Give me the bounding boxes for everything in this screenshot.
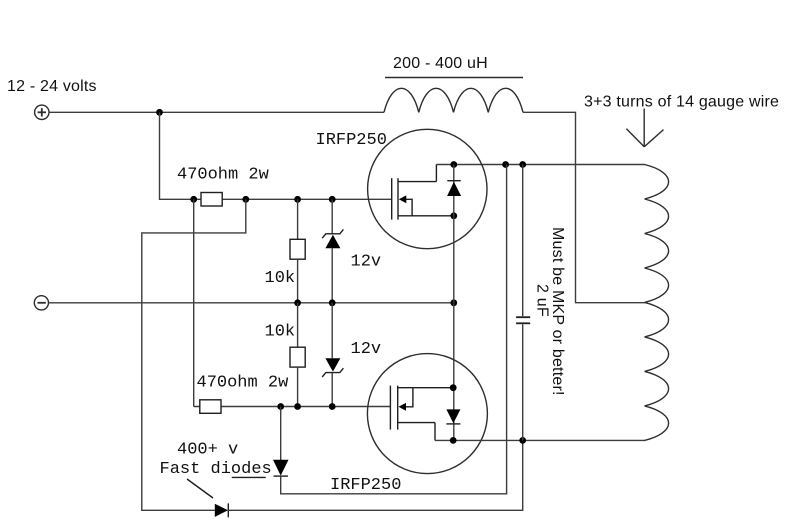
node V+ junction — [156, 109, 163, 116]
wire cross-couple gate2 to top rail — [281, 165, 507, 494]
svg-text:Fast diodes: Fast diodes — [160, 460, 272, 479]
svg-text:12v: 12v — [351, 253, 382, 272]
body diode Q2 — [446, 409, 460, 423]
node bottom rail: capacitor line — [519, 437, 526, 444]
svg-text:200 - 400 uH: 200 - 400 uH — [393, 55, 488, 72]
wire V+ branch to lower resistor — [193, 199, 195, 406]
wire V+ horizontal — [49, 111, 384, 113]
svg-text:400+ v: 400+ v — [177, 441, 238, 460]
wire bottom to cap line — [228, 440, 522, 510]
zener Z1 12v upper — [331, 199, 333, 234]
node gate1-Vplus — [190, 196, 197, 203]
node gnd-zener — [329, 299, 336, 306]
node gate2-zener — [329, 403, 336, 410]
resistor R4 470ohm 2w lower — [200, 400, 221, 414]
node gate1-10k — [294, 196, 301, 203]
resistor R2 10k upper — [297, 199, 299, 239]
zener Z2 12v lower — [331, 303, 333, 358]
wire center vertical (sources/ground) — [453, 165, 455, 441]
node Q1 source — [450, 212, 457, 219]
underline for 200-400uH — [385, 77, 523, 79]
body diode Q1 — [447, 180, 460, 182]
diode D1 fast diode (gate2 to upper drain) — [280, 407, 282, 461]
mosfet Q2 symbol — [390, 386, 453, 441]
svg-text:10k: 10k — [265, 323, 296, 342]
wire inductor to center-tap feed — [523, 112, 645, 302]
wire bottom rail (lower drain to coil bottom) — [435, 439, 646, 441]
arrow pointer to coil — [626, 109, 663, 147]
wire lower gate rail — [194, 406, 391, 408]
arrow gate Q1 — [399, 195, 407, 203]
node Q2 source — [450, 384, 457, 391]
node gnd-center vertical — [450, 299, 457, 306]
svg-text:470ohm 2w: 470ohm 2w — [177, 166, 270, 185]
mosfet Q2 IRFP250 lower: circle — [367, 354, 487, 474]
node gnd-10k — [294, 299, 301, 306]
underline under diodes — [232, 476, 266, 478]
node top rail: diode line — [450, 161, 457, 168]
wire cross-couple gate1 down-left — [142, 199, 246, 510]
svg-text:12v: 12v — [351, 340, 382, 359]
wire ground rail — [49, 302, 454, 304]
node gate2-10k — [294, 403, 301, 410]
svg-text:IRFP250: IRFP250 — [316, 131, 387, 150]
coil T1 primary 3+3 turns — [645, 165, 669, 441]
wire upper gate rail — [194, 198, 392, 200]
node top rail: crossover line — [502, 161, 509, 168]
mosfet Q1 IRFP250 upper: circle — [368, 129, 487, 248]
svg-text:3+3 turns of 14 gauge wire: 3+3 turns of 14 gauge wire — [584, 94, 779, 111]
wire V+ drop to gate resistors — [160, 112, 194, 199]
svg-text:Must be MKP or better!: Must be MKP or better! — [549, 227, 566, 396]
mosfet Q1 symbol — [392, 165, 454, 220]
resistor R1 470ohm 2w — [201, 193, 222, 207]
inductor L1 200-400uH — [384, 88, 523, 112]
capacitor C1 2uF — [522, 165, 524, 317]
node top rail: capacitor line — [519, 161, 526, 168]
svg-text:10k: 10k — [265, 269, 296, 288]
svg-text:470ohm 2w: 470ohm 2w — [197, 374, 290, 393]
node gate1-right of R1 — [242, 196, 249, 203]
svg-text:2 uF: 2 uF — [534, 284, 551, 317]
diode D2 fast diode (gate1 to lower drain) — [215, 504, 228, 517]
terminal minus — [34, 296, 48, 310]
node gate2-D1 — [277, 403, 284, 410]
resistor R3 10k lower — [297, 303, 299, 347]
node bottom rail: diode line — [450, 437, 457, 444]
svg-text:12 - 24 volts: 12 - 24 volts — [7, 78, 97, 95]
pointer line to D2 — [187, 479, 213, 498]
arrow gate Q2 — [399, 403, 407, 411]
node gate1-zener — [329, 196, 336, 203]
terminal plus — [35, 105, 49, 119]
wire top rail (upper drain to coil top) — [436, 164, 645, 166]
svg-text:IRFP250: IRFP250 — [330, 476, 401, 495]
